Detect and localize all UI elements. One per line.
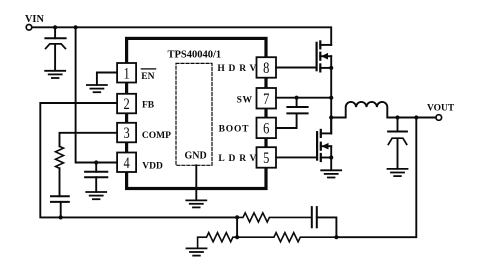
junction dot inductor tap <box>329 115 333 119</box>
wire VDD branch vertical <box>76 27 117 162</box>
svg-text:VOUT: VOUT <box>427 104 455 114</box>
wire GND stem <box>195 165 197 200</box>
transistor Q2 (low side) <box>317 118 331 162</box>
junction dot comp bottom <box>59 215 63 219</box>
junction dot input cap <box>53 25 57 29</box>
capacitor C3 (comp) <box>51 196 69 217</box>
svg-text:8: 8 <box>263 60 269 78</box>
pin 1 box <box>117 63 136 83</box>
resistor R4 (feedback lower) <box>237 233 336 242</box>
capacitor C1 (input) <box>45 27 65 70</box>
pin 7 box <box>257 88 277 109</box>
junction dot VDD branch <box>74 25 78 29</box>
node VOUT terminal <box>436 115 442 121</box>
svg-text:BOOT: BOOT <box>219 124 250 134</box>
wire FB column <box>236 217 238 237</box>
svg-text:4: 4 <box>123 155 129 173</box>
resistor R2 (feedback top) <box>237 213 311 222</box>
svg-text:7: 7 <box>263 91 269 109</box>
wire feedback column right <box>336 118 416 238</box>
resistor R3 (to ground) <box>198 233 238 249</box>
wire SW vertical <box>330 68 332 133</box>
ground (Q2) <box>321 170 341 177</box>
junction dot SW node <box>329 96 333 100</box>
svg-text:6: 6 <box>263 120 269 138</box>
junction dot Q1 source <box>329 66 333 70</box>
node VIN terminal <box>26 25 32 31</box>
junction dot lower rail right <box>334 235 338 239</box>
pin 8 box <box>257 57 277 77</box>
svg-text:VIN: VIN <box>25 14 44 25</box>
pin 2 box <box>117 94 136 114</box>
pin 3 box <box>117 123 136 143</box>
pin 6 box <box>257 118 277 139</box>
junction dot SW boot <box>295 96 299 100</box>
ground (feedback) <box>187 248 207 255</box>
wire R1 to C3 <box>59 168 61 196</box>
dashed internal box <box>176 63 212 165</box>
capacitor C5 (output) <box>388 118 407 169</box>
capacitor C6 (feedforward) <box>312 207 337 237</box>
svg-text:SW: SW <box>237 95 253 105</box>
svg-text:LDRV: LDRV <box>218 154 260 164</box>
wire COMP <box>60 133 118 147</box>
transistor Q1 (high side) <box>317 41 332 71</box>
wire SW <box>276 97 330 99</box>
ground (IC GND) <box>186 200 206 207</box>
resistor R1 (comp) <box>56 146 64 168</box>
svg-text:3: 3 <box>123 125 129 143</box>
junction dot feedback column <box>414 115 418 119</box>
svg-text:5: 5 <box>263 150 269 168</box>
junction dot VDD bypass <box>94 160 98 164</box>
svg-text:TPS40040/1: TPS40040/1 <box>168 50 222 61</box>
wire Q2 source to ground <box>330 158 332 171</box>
svg-text:2: 2 <box>123 96 129 114</box>
ground (VDD bypass) <box>86 192 106 199</box>
junction dot lower rail left <box>235 235 239 239</box>
wire HDRV <box>276 67 315 69</box>
wire VIN rail <box>32 27 331 45</box>
svg-text:1: 1 <box>123 65 129 83</box>
wire FB to bottom rail <box>40 103 237 217</box>
pin 4 box <box>117 153 136 173</box>
svg-text:VDD: VDD <box>142 161 163 171</box>
junction dot Q2 source <box>329 155 333 159</box>
svg-text:EN: EN <box>141 72 154 82</box>
junction dot output cap <box>395 115 399 119</box>
wire LDRV <box>276 156 316 158</box>
svg-text:GND: GND <box>185 151 207 162</box>
pin 5 box <box>257 147 277 168</box>
junction dot bottom rail FB node <box>235 215 239 219</box>
inductor L1 <box>331 102 436 118</box>
svg-text:COMP: COMP <box>142 131 171 141</box>
ground (EN) <box>87 85 107 92</box>
ground (output cap) <box>388 169 408 176</box>
svg-text:HDRV: HDRV <box>217 64 260 74</box>
capacitor C4 (boot) <box>276 98 308 128</box>
IC U1 body <box>127 38 266 188</box>
ground (input cap) <box>45 71 65 78</box>
svg-text:FB: FB <box>142 101 155 111</box>
capacitor C2 (VDD bypass) <box>85 163 107 192</box>
wire EN to ground <box>97 73 117 85</box>
